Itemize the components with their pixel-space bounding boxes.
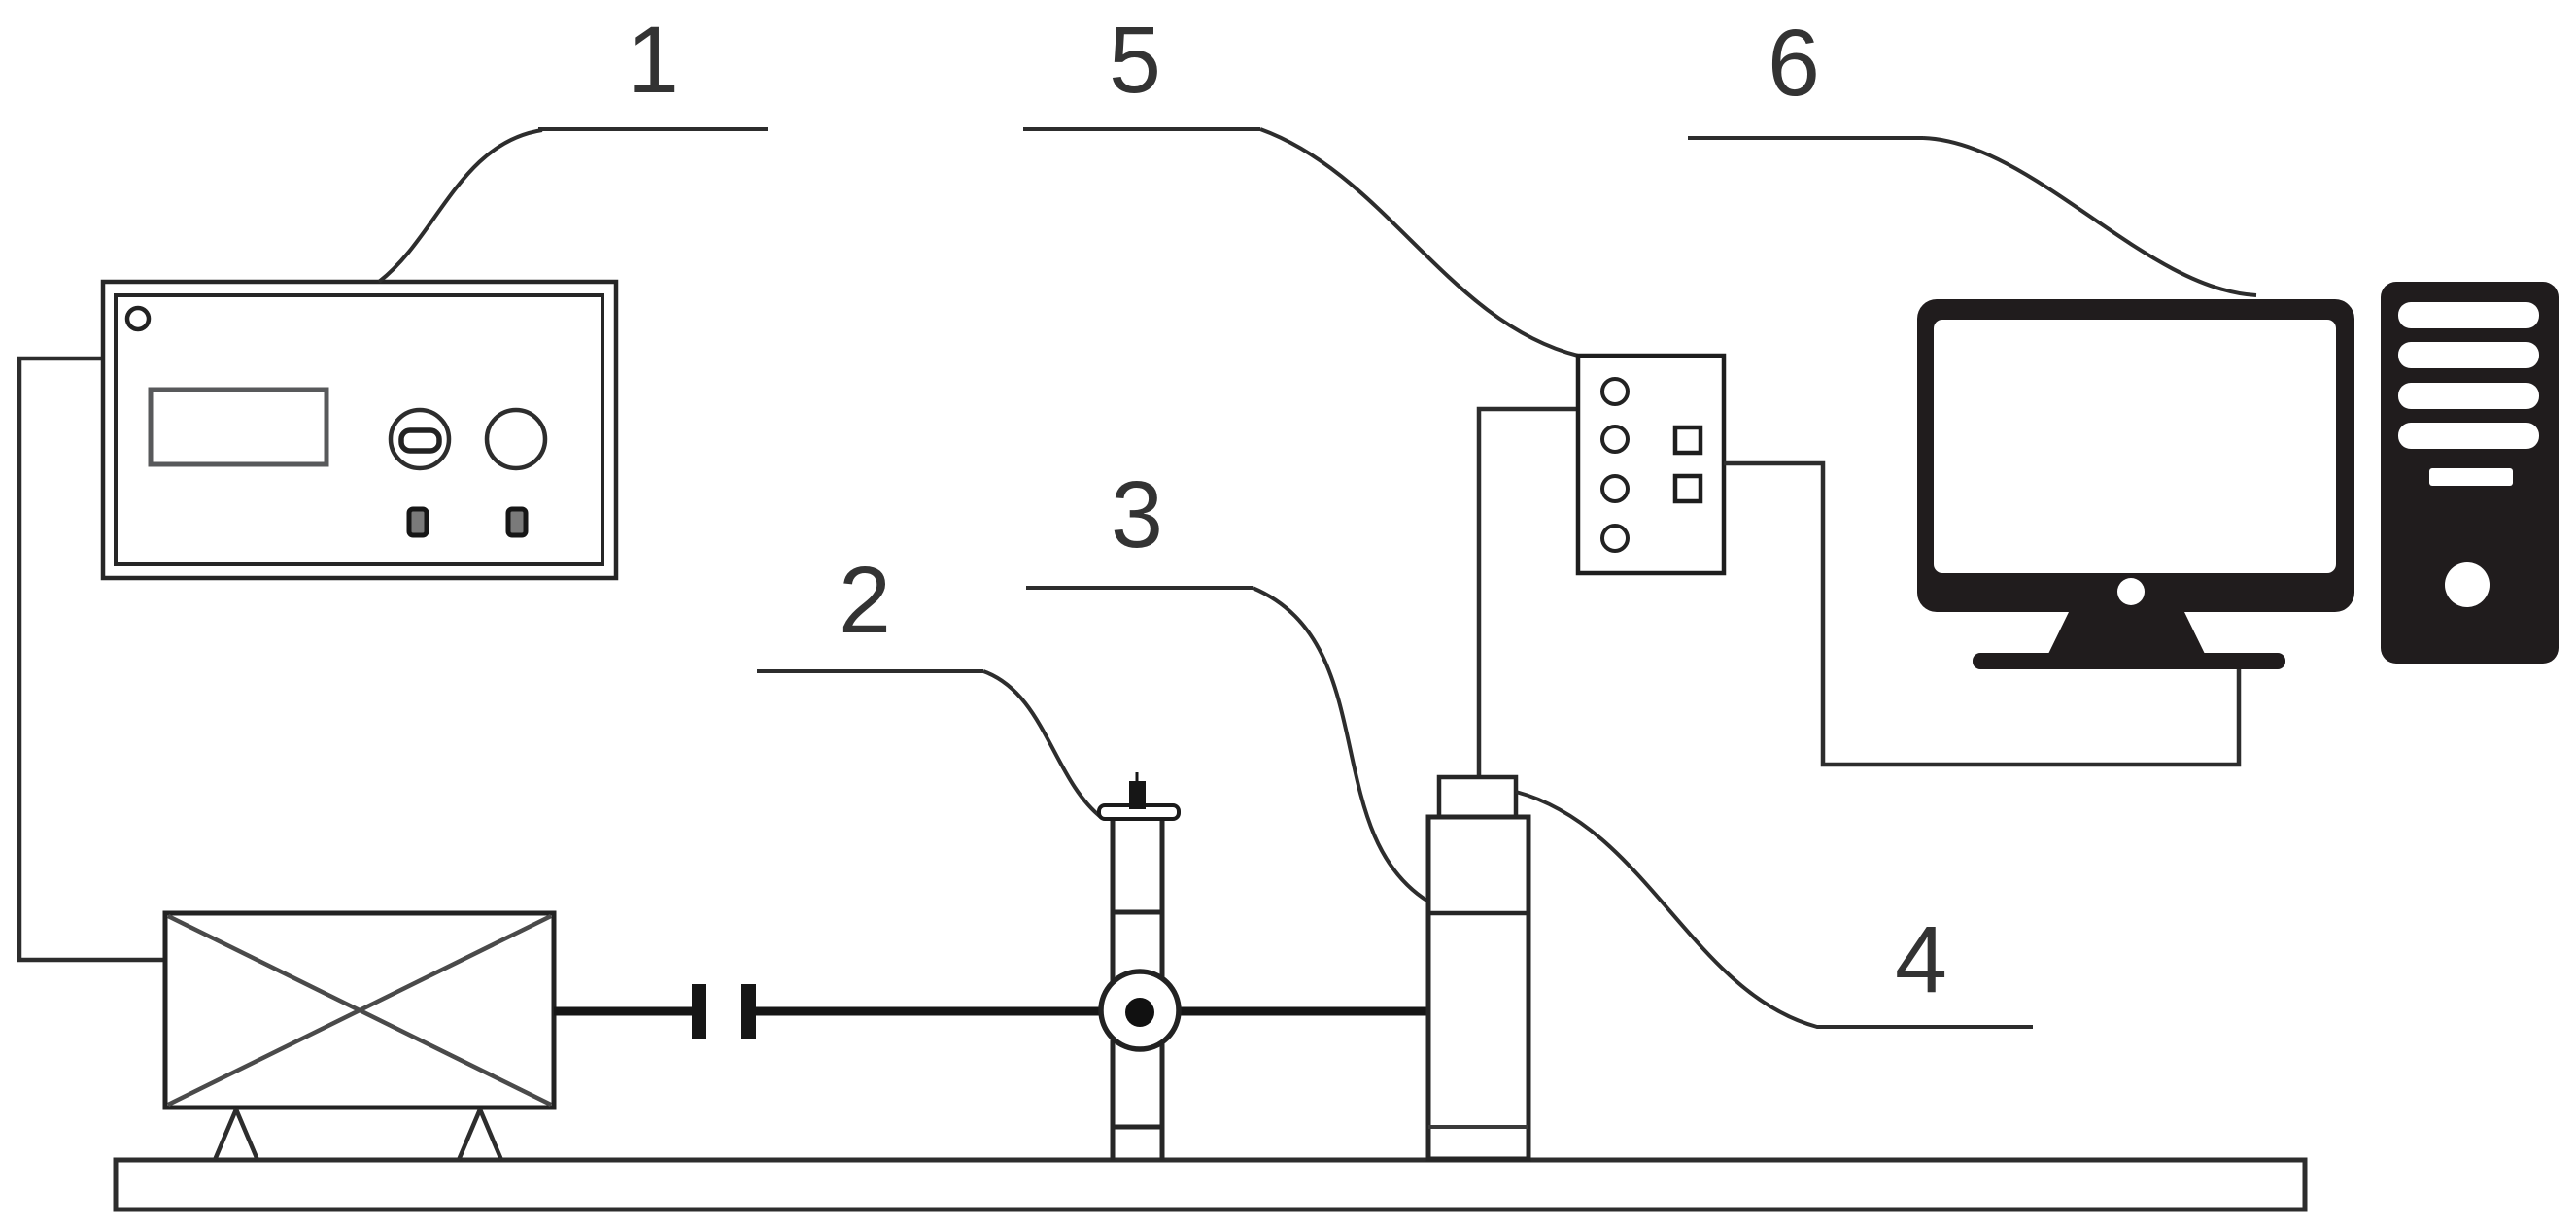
leader line 6 <box>1688 136 1923 140</box>
monitor screen <box>1934 320 2336 573</box>
tower drive bar <box>2429 468 2513 486</box>
leader curve 3 <box>1253 588 1428 902</box>
svg-text:2: 2 <box>839 547 891 653</box>
knob with slot <box>391 410 449 468</box>
wire control box to sensor <box>1479 409 1578 777</box>
shaft left segment <box>554 1007 692 1016</box>
crossed box diagonal 2 <box>168 916 551 1105</box>
vibration exciter crossed box <box>165 913 554 1107</box>
syringe plunger stub <box>1129 781 1146 809</box>
LED 1 <box>1602 379 1628 404</box>
toggle switch right <box>508 509 526 535</box>
svg-text:5: 5 <box>1109 7 1161 113</box>
monitor stand neck <box>2048 612 2205 654</box>
tower slot 1 <box>2398 302 2539 328</box>
computer tower case <box>2381 282 2559 664</box>
toggle switch left <box>409 509 427 535</box>
leader line 5 <box>1023 127 1260 131</box>
base plate <box>116 1160 2305 1209</box>
valve center dot <box>1125 998 1154 1027</box>
svg-text:3: 3 <box>1111 461 1163 567</box>
leader curve 5 <box>1260 129 1578 356</box>
cylinder joint upper <box>1428 911 1528 916</box>
button square 1 <box>1675 427 1700 453</box>
syringe flange <box>1099 805 1179 819</box>
wire control box to computer <box>1724 463 2239 765</box>
indicator lamp <box>127 308 149 329</box>
svg-text:1: 1 <box>627 7 679 113</box>
wire from device 1 to vibration exciter <box>19 358 165 960</box>
syringe joint upper <box>1111 910 1164 915</box>
shaft right segment <box>756 1007 1428 1016</box>
coupling right bar <box>741 984 756 1039</box>
leader line 3 <box>1026 586 1253 590</box>
tower power button <box>2445 562 2490 607</box>
syringe joint lower <box>1111 1125 1164 1130</box>
cable 4 from sensor <box>1516 792 2033 1027</box>
monitor stand base <box>1973 653 2285 669</box>
LED 3 <box>1602 476 1628 501</box>
syringe barrel left wall <box>1111 819 1116 1160</box>
leader line 1 <box>538 127 768 131</box>
device U1 inner panel <box>116 295 602 564</box>
coupling left bar <box>692 984 706 1039</box>
leader curve 6 <box>1923 138 2256 295</box>
svg-text:4: 4 <box>1895 906 1947 1012</box>
valve body circle <box>1101 971 1179 1049</box>
crossed box diagonal 1 <box>168 916 551 1105</box>
tower slot 2 <box>2398 342 2539 368</box>
tower slot 4 <box>2398 423 2539 449</box>
right foot triangle <box>459 1109 501 1160</box>
svg-text:6: 6 <box>1768 10 1820 116</box>
left foot triangle <box>215 1109 258 1160</box>
control box 5 <box>1578 356 1724 573</box>
device U1 outer case <box>103 282 616 578</box>
leader line 2 <box>757 669 983 673</box>
LED 2 <box>1602 426 1628 452</box>
sensor cylinder body <box>1428 817 1528 1159</box>
leader curve 1 <box>379 130 542 282</box>
cylinder joint lower <box>1428 1125 1528 1129</box>
round button <box>487 410 545 468</box>
LED 4 <box>1602 526 1628 551</box>
leader curve 2 <box>983 671 1102 818</box>
button square 2 <box>1675 476 1700 501</box>
syringe barrel right wall <box>1160 819 1165 1160</box>
display window <box>151 390 326 464</box>
tower slot 3 <box>2398 383 2539 409</box>
sensor cylinder cap <box>1439 777 1516 817</box>
monitor camera dot <box>2117 578 2145 605</box>
monitor bezel <box>1917 299 2354 612</box>
